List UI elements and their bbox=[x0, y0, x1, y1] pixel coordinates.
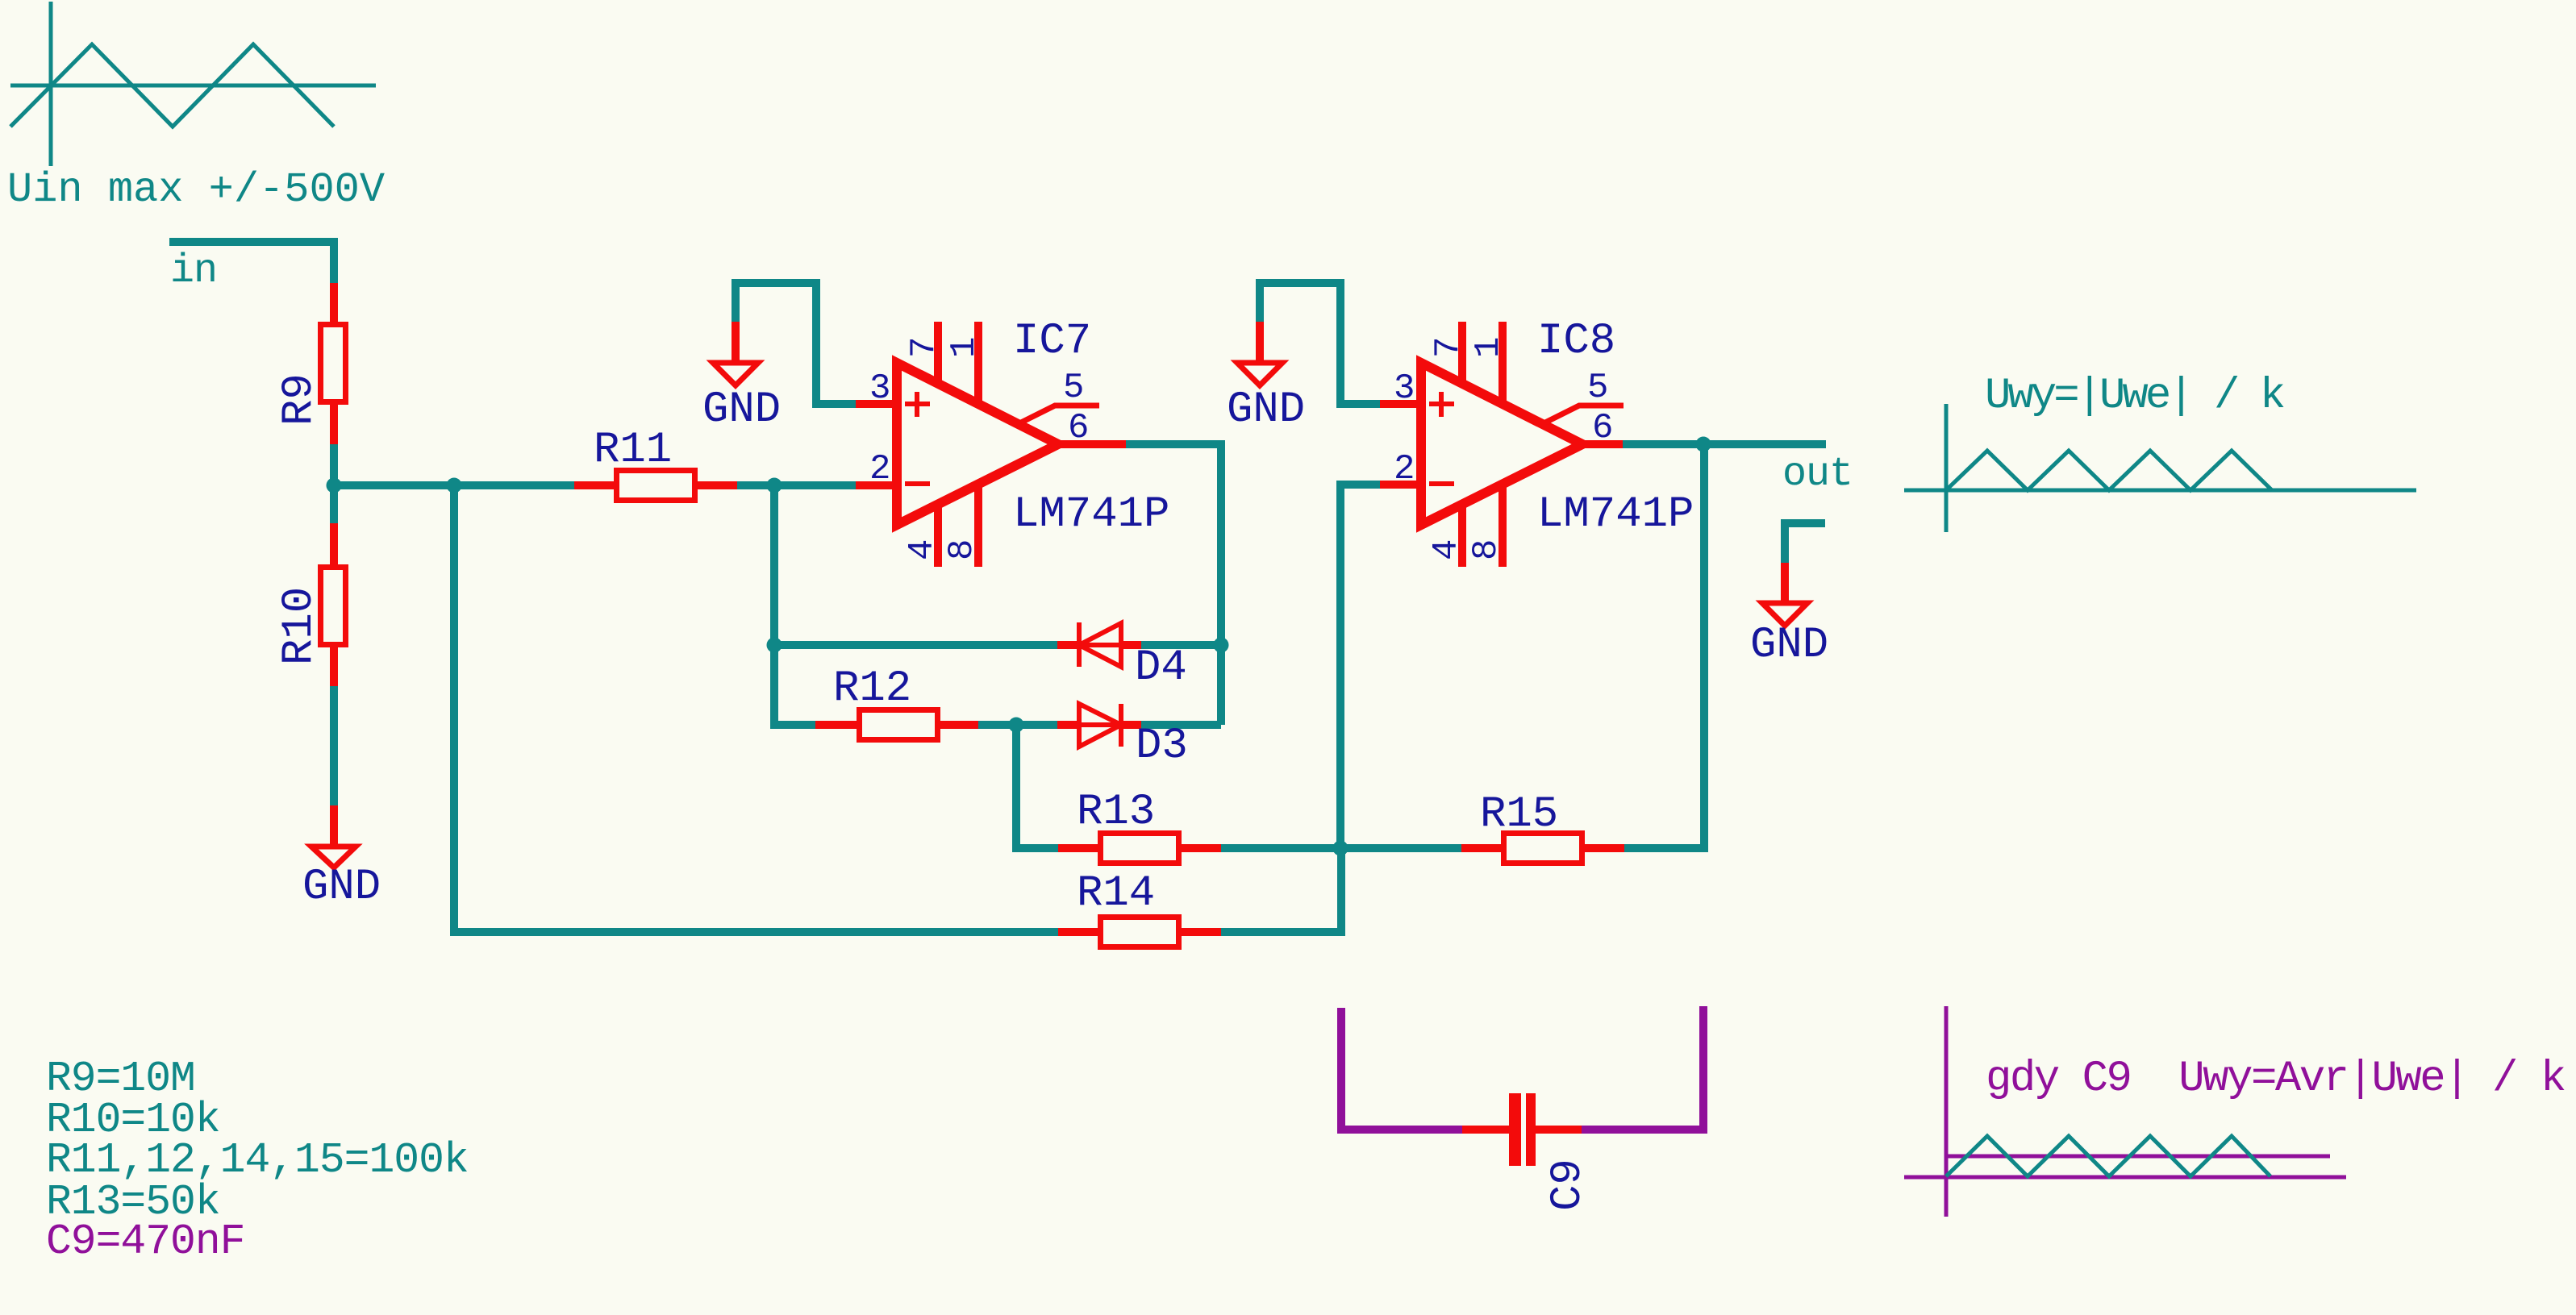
svg-text:8: 8 bbox=[942, 539, 982, 560]
svg-text:out: out bbox=[1782, 452, 1853, 497]
node F junction dot (R12/D3/R13 net) bbox=[1009, 718, 1024, 733]
op-amp IC7 pin1 stub bbox=[974, 322, 982, 406]
diode D3 cathode bar bbox=[1119, 704, 1123, 747]
capacitor C9 right plate bbox=[1526, 1093, 1536, 1166]
resistor R12 right pin bbox=[940, 721, 978, 729]
svg-text:2: 2 bbox=[1394, 449, 1415, 489]
capacitor C9 right hanging wire bbox=[1582, 1006, 1703, 1130]
ground GND4 pin bbox=[1781, 563, 1789, 603]
svg-text:D4: D4 bbox=[1135, 643, 1187, 693]
resistor R13 left pin bbox=[1058, 844, 1098, 852]
wire: node F to D3 bbox=[1016, 721, 1057, 729]
op-amp IC8 pin6 output lead bbox=[1582, 440, 1623, 448]
wire: node D to D4 bbox=[774, 641, 1057, 649]
node: input waveform annotation - horizontal axis bbox=[10, 84, 376, 88]
resistor R12 body bbox=[860, 710, 938, 740]
node A junction dot (R9/R10/R11 net) bbox=[327, 478, 342, 493]
wire: IC7 output to D4 branch corner bbox=[1126, 444, 1221, 725]
wire: IC8 output to OUT terminal bbox=[1623, 440, 1826, 448]
svg-text:GND: GND bbox=[302, 863, 381, 912]
svg-text:5: 5 bbox=[1587, 368, 1608, 408]
ground GND3 arrow bbox=[1237, 363, 1282, 385]
resistor R14 left pin bbox=[1058, 928, 1098, 936]
svg-text:R11: R11 bbox=[594, 426, 672, 475]
svg-text:GND: GND bbox=[1227, 385, 1305, 435]
svg-text:1: 1 bbox=[944, 337, 985, 358]
svg-text:1: 1 bbox=[1469, 337, 1509, 358]
capacitor C9 left plate bbox=[1509, 1093, 1521, 1166]
wire: R12 to node F bbox=[978, 721, 1016, 729]
diode D3 right lead bbox=[1121, 721, 1141, 729]
node: averaged waveform vertical axis bbox=[1945, 1006, 1949, 1217]
ground GND2 (IC7 +input) wire loop bbox=[736, 283, 856, 404]
svg-text:GND: GND bbox=[1750, 621, 1828, 670]
node: averaged waveform horizontal axis bbox=[1904, 1176, 2346, 1180]
svg-text:2: 2 bbox=[869, 449, 890, 489]
svg-text:IC8: IC8 bbox=[1537, 317, 1615, 366]
resistor R15 right pin bbox=[1585, 844, 1624, 852]
svg-text:in: in bbox=[170, 248, 217, 294]
resistor R11 body bbox=[617, 471, 695, 501]
svg-text:6: 6 bbox=[1068, 408, 1089, 448]
node D junction dot (D4 anode branch) bbox=[767, 638, 782, 653]
ground GND1 pin (below R10) bbox=[330, 805, 338, 847]
svg-text:LM741P: LM741P bbox=[1013, 490, 1169, 539]
ground GND2 arrow bbox=[713, 363, 758, 385]
node: output waveform rectified triangle trace bbox=[1946, 451, 2272, 490]
wire: R9 bottom to node A bbox=[330, 444, 338, 485]
node B junction dot bbox=[447, 478, 462, 493]
wire: net IN from terminal to R9 top bbox=[169, 242, 334, 283]
wire: node A to node B bbox=[334, 481, 454, 489]
wire: node C to IC7 pin2 bbox=[774, 481, 856, 489]
op-amp IC7 pin5 stub bbox=[1021, 406, 1099, 422]
resistor R9 top pin bbox=[330, 283, 338, 322]
capacitor C9 left hanging wire bbox=[1341, 1008, 1462, 1130]
op-amp IC8 pin5 stub bbox=[1545, 406, 1624, 422]
svg-text:5: 5 bbox=[1063, 368, 1084, 408]
wire: R14 up to node G bbox=[1221, 848, 1341, 932]
resistor R11 left pin bbox=[574, 481, 614, 489]
svg-text:R9: R9 bbox=[275, 373, 324, 426]
op-amp IC7 pin3 lead (+) bbox=[856, 400, 897, 408]
svg-text:8: 8 bbox=[1466, 539, 1507, 560]
node E junction dot (IC7 out / D4 cathode) bbox=[1214, 638, 1229, 653]
op-amp IC8 minus mark bbox=[1429, 481, 1454, 486]
resistor R11 right pin bbox=[698, 481, 737, 489]
svg-text:Uwy=|Uwe| / k: Uwy=|Uwe| / k bbox=[1985, 372, 2284, 421]
wire: node D corner down to R12 bbox=[774, 645, 815, 725]
svg-text:7: 7 bbox=[1428, 337, 1469, 358]
resistor R14 body bbox=[1101, 918, 1179, 947]
svg-text:3: 3 bbox=[869, 368, 890, 409]
diode D3 left lead bbox=[1057, 721, 1079, 729]
op-amp IC8 pin3 lead (+) bbox=[1380, 400, 1421, 408]
resistor R15 left pin bbox=[1461, 844, 1501, 852]
svg-text:R15: R15 bbox=[1480, 790, 1558, 839]
svg-text:R14: R14 bbox=[1077, 869, 1155, 918]
svg-text:4: 4 bbox=[902, 539, 943, 560]
ground GND4 arrow bbox=[1762, 603, 1807, 626]
svg-text:R12: R12 bbox=[833, 664, 911, 714]
resistor R13 right pin bbox=[1182, 844, 1221, 852]
wire: node C down to D4/R12 branch bbox=[770, 485, 778, 725]
op-amp IC8 plus mark bbox=[1429, 402, 1454, 406]
op-amp IC7 minus mark bbox=[905, 481, 930, 486]
resistor R15 body bbox=[1504, 834, 1582, 863]
capacitor C9 right lead bbox=[1536, 1126, 1582, 1134]
svg-text:D3: D3 bbox=[1136, 722, 1188, 771]
svg-text:IC7: IC7 bbox=[1013, 317, 1091, 366]
wire: D4 to node E bbox=[1141, 641, 1221, 649]
svg-text:R11,12,14,15=100k: R11,12,14,15=100k bbox=[46, 1136, 469, 1184]
wire: node B to R11 left pin bbox=[454, 481, 574, 489]
diode D4 left lead bbox=[1057, 641, 1079, 649]
op-amp IC8 pin4 stub bbox=[1458, 504, 1466, 567]
ground GND1 arrow bbox=[311, 847, 356, 868]
svg-text:3: 3 bbox=[1394, 368, 1415, 409]
wire: node G to R15 bbox=[1340, 844, 1461, 852]
node G junction dot (R13/R15/IC8 -in/R14) bbox=[1333, 841, 1348, 856]
ground GND3 pin bbox=[1256, 322, 1264, 363]
capacitor C9 left lead bbox=[1462, 1126, 1509, 1134]
op-amp IC7 pin4 stub bbox=[934, 504, 942, 567]
node: input waveform annotation - triangle wave trace bbox=[10, 44, 334, 127]
svg-text:R10: R10 bbox=[275, 587, 324, 665]
diode D4 cathode bar bbox=[1077, 622, 1082, 667]
wire: R10 bottom to GND symbol bbox=[330, 686, 338, 805]
wire: R15 up to output node bbox=[1624, 444, 1704, 848]
node: averaged waveform average level line bbox=[1946, 1155, 2330, 1159]
diode D3 triangle bbox=[1079, 704, 1121, 747]
svg-text:Uin max +/-500V: Uin max +/-500V bbox=[7, 166, 385, 214]
svg-text:C9: C9 bbox=[1544, 1159, 1593, 1211]
op-amp IC8 pin7 stub bbox=[1458, 322, 1466, 385]
op-amp IC7 pin6 output lead bbox=[1058, 440, 1126, 448]
resistor R13 body bbox=[1101, 834, 1179, 863]
op-amp IC8 triangle body bbox=[1421, 363, 1582, 525]
wire: R11 right pin to node C bbox=[737, 481, 774, 489]
op-amp IC7 pin7 stub bbox=[934, 322, 942, 385]
ground GND4 hook wire bbox=[1785, 523, 1825, 563]
svg-text:4: 4 bbox=[1427, 539, 1467, 560]
node: input waveform annotation - vertical axis bbox=[49, 2, 53, 166]
svg-text:R13: R13 bbox=[1077, 788, 1155, 837]
resistor R10 top pin bbox=[330, 523, 338, 564]
wire: node F down to R13 bbox=[1016, 725, 1058, 848]
diode D4 through line bbox=[1079, 643, 1121, 647]
wire: node G up to IC8 pin2 bbox=[1340, 485, 1380, 848]
op-amp IC7 triangle body bbox=[897, 363, 1058, 525]
diode D4 right lead bbox=[1121, 641, 1141, 649]
op-amp IC8 pin1 stub bbox=[1498, 322, 1507, 406]
op-amp IC8 pin2 lead (-) bbox=[1380, 481, 1421, 489]
svg-text:7: 7 bbox=[904, 337, 944, 358]
resistor R12 left pin bbox=[815, 721, 857, 729]
resistor R10 body bbox=[321, 568, 346, 645]
resistor R9 body bbox=[321, 325, 346, 402]
resistor R14 right pin bbox=[1182, 928, 1221, 936]
op-amp IC7 pin8 stub bbox=[974, 483, 982, 567]
wire: node B down and along R14 row bbox=[454, 485, 1058, 932]
node: output waveform vertical axis bbox=[1945, 404, 1949, 532]
svg-text:gdy C9 Uwy=Avr|Uwe| / k: gdy C9 Uwy=Avr|Uwe| / k bbox=[1986, 1055, 2565, 1104]
svg-text:GND: GND bbox=[702, 385, 781, 435]
op-amp IC7 pin2 lead (-) bbox=[856, 481, 897, 489]
svg-text:6: 6 bbox=[1592, 408, 1613, 448]
node: averaged waveform ripple trace bbox=[1946, 1136, 2270, 1176]
diode D4 triangle bbox=[1079, 623, 1121, 667]
node: output waveform horizontal axis bbox=[1904, 489, 2416, 493]
ground GND2 pin bbox=[732, 322, 740, 363]
wire: D3 up to node E column bbox=[1141, 721, 1221, 729]
resistor R10 bottom pin bbox=[330, 647, 338, 686]
op-amp IC8 pin8 stub bbox=[1498, 483, 1507, 567]
resistor R9 bottom pin bbox=[330, 405, 338, 444]
svg-text:LM741P: LM741P bbox=[1537, 490, 1694, 539]
svg-text:C9=470nF: C9=470nF bbox=[46, 1217, 244, 1266]
node C junction dot (IC7 inverting input net) bbox=[767, 478, 782, 493]
ground GND3 (IC8 +input) wire loop bbox=[1260, 283, 1380, 404]
diode D3 through line bbox=[1079, 722, 1121, 727]
wire: R13 to node G bbox=[1221, 844, 1340, 852]
node H junction dot (output net) bbox=[1696, 437, 1711, 452]
op-amp IC7 plus mark bbox=[905, 402, 930, 406]
wire: node A down to R10 top bbox=[330, 485, 338, 523]
